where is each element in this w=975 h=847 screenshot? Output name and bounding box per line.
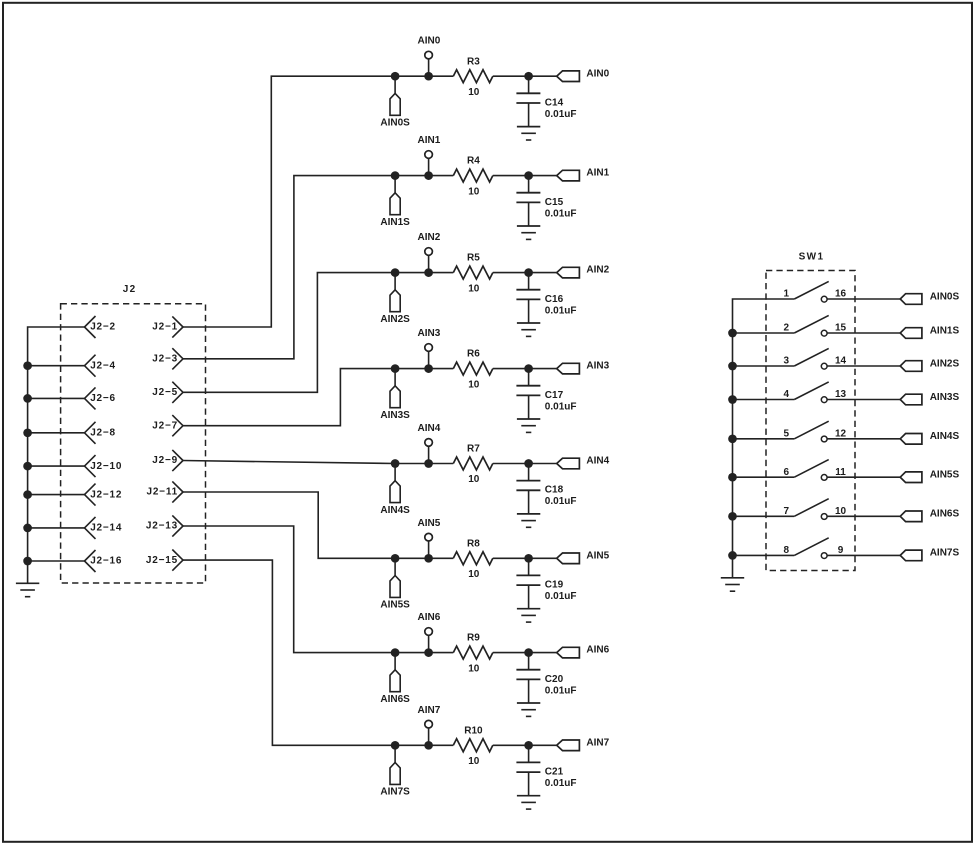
resistor R9 [453,646,493,659]
svg-text:AIN0: AIN0 [586,68,609,79]
svg-text:10: 10 [468,379,480,390]
switch SW1 element 2-15 contact [821,330,827,336]
svg-text:AIN1: AIN1 [418,135,441,146]
junction node AIN2S stub [391,268,400,277]
resistor R8 [453,552,493,565]
svg-text:J2−3: J2−3 [152,354,178,365]
svg-text:J2−4: J2−4 [90,360,116,371]
resistor R3 [453,70,493,83]
junction node AIN7S stub [391,741,400,750]
pin J2-15 chevron [172,550,183,571]
pin J2-2 chevron [85,316,96,338]
junction node AIN4S stub [391,459,400,468]
svg-text:R4: R4 [467,156,480,167]
junction node capacitor C19 [524,554,533,563]
jumper flag AIN7S [390,745,400,784]
svg-text:AIN7S: AIN7S [930,548,960,559]
svg-text:10: 10 [468,474,480,485]
switch SW1 element 6-11 contact [821,475,827,481]
switch SW1 element 5-12 blade [794,421,828,439]
svg-text:1: 1 [783,289,789,300]
wire SW1 ground bus [733,299,795,578]
junction node AIN3S stub [391,364,400,373]
wire bus to pin J2-4 [28,365,85,367]
wire switch 14 to AIN2S flag [827,365,900,367]
svg-text:AIN3: AIN3 [418,328,441,339]
junction node testpoint AIN7 [424,741,433,750]
svg-text:J2−15: J2−15 [146,555,178,566]
svg-text:J2−12: J2−12 [90,489,122,500]
pin J2-4 chevron [85,355,96,377]
switch SW1 element 2-15 blade [794,315,828,333]
svg-text:AIN3S: AIN3S [930,392,960,403]
wire switch 12 to AIN4S flag [827,438,900,440]
svg-text:5: 5 [783,429,789,440]
switch SW1 element 8-9 blade [794,538,828,556]
ground (C16) [517,322,540,324]
svg-text:J2−10: J2−10 [90,461,122,472]
connector J2 dashed outline [61,304,206,583]
junction node testpoint AIN1 [424,171,433,180]
wire J2-1 to AIN0 net [183,76,453,327]
wire J2-13 to AIN6 net [183,526,453,653]
capacitor C19 [516,558,540,608]
test point AIN7 (circle) [425,720,433,745]
switch SW1 element 7-10 blade [794,499,828,517]
svg-text:C19: C19 [545,580,564,591]
switch SW1 element 3-14 contact [821,363,827,369]
test point AIN6 (circle) [425,628,433,653]
junction node AIN1S stub [391,171,400,180]
switch SW1 element 7-10 contact [821,514,827,520]
svg-text:10: 10 [468,663,480,674]
wire switch 11 to AIN5S flag [827,476,900,478]
junction bus node sw4 [728,395,737,404]
resistor R7 [453,457,493,470]
svg-text:0.01uF: 0.01uF [545,778,577,789]
junction node testpoint AIN6 [424,648,433,657]
svg-text:AIN2S: AIN2S [380,314,410,325]
svg-text:10: 10 [468,186,480,197]
svg-text:10: 10 [468,756,480,767]
ground (C18) [517,513,540,515]
test point AIN0 (circle) [425,51,433,76]
svg-text:C15: C15 [545,197,564,208]
output flag AIN6 [557,647,580,658]
wire bus to pin J2-8 [28,432,85,434]
junction node AIN5S stub [391,554,400,563]
junction bus node J2-4 [23,361,32,370]
wire bus to switch pole 6 [733,476,795,478]
output flag AIN7 [557,740,580,751]
wire resistor R10 output to node [493,744,557,746]
capacitor C18 [516,464,540,514]
svg-text:AIN2: AIN2 [418,232,441,243]
wire switch 15 to AIN1S flag [827,332,900,334]
svg-text:AIN7: AIN7 [586,737,609,748]
svg-text:J2−9: J2−9 [152,455,178,466]
junction bus node sw8 [728,551,737,560]
output flag AIN2 [557,267,580,278]
junction node capacitor C16 [524,268,533,277]
resistor R5 [453,266,493,279]
svg-text:AIN3S: AIN3S [380,410,410,421]
svg-text:7: 7 [783,506,789,517]
svg-text:AIN4S: AIN4S [930,431,960,442]
svg-text:R8: R8 [467,538,480,549]
wire bus to pin J2-6 [28,397,85,399]
svg-text:9: 9 [838,545,844,556]
svg-text:AIN2S: AIN2S [930,358,960,369]
svg-text:10: 10 [468,283,480,294]
wire resistor R8 output to node [493,557,557,559]
svg-text:AIN2: AIN2 [586,265,609,276]
switch SW1 element 4-13 contact [821,397,827,403]
output flag AIN6S [900,511,922,522]
junction bus node sw7 [728,512,737,521]
svg-text:AIN5: AIN5 [418,518,441,529]
svg-text:SW1: SW1 [799,251,825,262]
pin J2-3 chevron [172,348,183,369]
switch SW1 element 4-13 blade [794,382,828,400]
wire bus to switch pole 8 [733,554,795,556]
wire bus to switch pole 7 [733,515,795,517]
pin J2-8 chevron [85,422,96,444]
junction node capacitor C14 [524,72,533,81]
wire resistor R4 output to node [493,175,557,177]
wire J2-7 to AIN3 net [183,369,453,426]
svg-text:AIN6: AIN6 [418,612,441,623]
junction bus node sw3 [728,362,737,371]
switch SW1 dashed outline [766,271,855,571]
junction node testpoint AIN0 [424,72,433,81]
svg-text:C21: C21 [545,767,564,778]
svg-text:AIN7: AIN7 [418,705,441,716]
pin J2-12 chevron [85,484,96,506]
ground (C14) [517,126,540,128]
resistor R10 [453,739,493,752]
jumper flag AIN1S [390,176,400,215]
resistor R6 [453,362,493,375]
svg-text:J2−5: J2−5 [152,387,178,398]
switch SW1 element 3-14 blade [794,348,828,366]
svg-text:AIN6S: AIN6S [380,694,410,705]
wire J2-9 to AIN4 net [183,461,453,464]
ground (C15) [517,225,540,227]
svg-text:J2−11: J2−11 [146,487,178,498]
svg-text:4: 4 [783,389,789,400]
svg-text:AIN5S: AIN5S [380,600,410,611]
output flag AIN5 [557,553,580,564]
junction bus node J2-6 [23,394,32,403]
junction node capacitor C21 [524,741,533,750]
svg-text:14: 14 [835,356,847,367]
svg-text:C18: C18 [545,485,564,496]
pin J2-16 chevron [85,550,96,572]
wire bus to pin J2-14 [28,527,85,529]
svg-text:16: 16 [835,289,847,300]
ground (C20) [517,702,540,704]
svg-text:C17: C17 [545,390,564,401]
switch SW1 element 8-9 contact [821,553,827,559]
ground (SW1 bus) [721,577,744,579]
output flag AIN4 [557,458,580,469]
capacitor C20 [516,653,540,703]
wire bus to pin J2-12 [28,494,85,496]
svg-text:AIN3: AIN3 [586,361,609,372]
svg-text:R3: R3 [467,56,480,67]
junction node capacitor C15 [524,171,533,180]
junction node testpoint AIN2 [424,268,433,277]
jumper flag AIN5S [390,558,400,597]
junction bus node J2-16 [23,557,32,566]
svg-text:R7: R7 [467,444,480,455]
svg-text:11: 11 [835,467,846,478]
svg-text:AIN5S: AIN5S [930,470,960,481]
test point AIN4 (circle) [425,439,433,464]
switch SW1 element 5-12 contact [821,436,827,442]
svg-text:J2−13: J2−13 [146,521,178,532]
capacitor C17 [516,369,540,419]
wire switch 10 to AIN6S flag [827,515,900,517]
svg-text:AIN1: AIN1 [586,168,609,179]
wire J2-11 to AIN5 net [183,492,453,558]
svg-text:J2−7: J2−7 [152,420,178,431]
wire resistor R6 output to node [493,368,557,370]
junction node testpoint AIN4 [424,459,433,468]
pin J2-9 chevron [172,450,183,471]
output flag AIN0 [557,71,580,82]
svg-text:R10: R10 [464,725,483,736]
svg-text:J2−8: J2−8 [90,428,116,439]
wire switch 9 to AIN7S flag [827,554,900,556]
test point AIN2 (circle) [425,248,433,273]
svg-text:C14: C14 [545,97,564,108]
wire switch 13 to AIN3S flag [827,399,900,401]
pin J2-1 chevron [172,316,183,337]
svg-text:AIN4: AIN4 [418,423,441,434]
wire bus to switch pole 2 [733,332,795,334]
pin J2-14 chevron [85,517,96,539]
switch SW1 element 1-16 contact [821,296,827,302]
svg-text:0.01uF: 0.01uF [545,109,577,120]
svg-text:AIN6S: AIN6S [930,509,960,520]
test point AIN3 (circle) [425,344,433,369]
output flag AIN3S [900,394,922,405]
wire J2-5 to AIN2 net [183,273,453,393]
junction bus node J2-8 [23,428,32,437]
pin J2-13 chevron [172,515,183,536]
junction bus node sw6 [728,473,737,482]
junction bus node J2-10 [23,462,32,471]
pin J2-5 chevron [172,382,183,403]
wire bus to switch pole 3 [733,365,795,367]
svg-text:AIN4: AIN4 [586,456,609,467]
ground (C19) [517,608,540,610]
junction bus node sw2 [728,329,737,338]
svg-text:3: 3 [783,356,789,367]
svg-text:J2−2: J2−2 [90,322,116,333]
svg-text:8: 8 [783,545,789,556]
svg-text:R9: R9 [467,633,480,644]
svg-text:0.01uF: 0.01uF [545,208,577,219]
ground (J2 bus) [16,582,39,584]
jumper flag AIN3S [390,369,400,408]
svg-text:C20: C20 [545,674,564,685]
svg-text:10: 10 [468,87,480,98]
junction bus node sw5 [728,434,737,443]
wire bus to pin J2-16 [28,560,85,562]
pin J2-11 chevron [172,481,183,502]
svg-text:AIN0S: AIN0S [380,118,410,129]
capacitor C21 [516,745,540,795]
jumper flag AIN4S [390,464,400,503]
junction node capacitor C20 [524,648,533,657]
wire J2-3 to AIN1 net [183,176,453,359]
svg-text:AIN6: AIN6 [586,645,609,656]
output flag AIN5S [900,472,922,483]
svg-text:10: 10 [835,506,847,517]
output flag AIN7S [900,550,922,561]
output flag AIN0S [900,294,922,305]
wire J2-15 to AIN7 net [183,560,453,745]
test point AIN1 (circle) [425,151,433,176]
output flag AIN2S [900,361,922,372]
svg-text:AIN4S: AIN4S [380,505,410,516]
junction node capacitor C17 [524,364,533,373]
pin J2-7 chevron [172,415,183,436]
wire bus to switch pole 4 [733,399,795,401]
capacitor C15 [516,176,540,226]
ground (C21) [517,795,540,797]
svg-text:J2: J2 [123,284,137,295]
junction bus node J2-12 [23,490,32,499]
junction node AIN0S stub [391,72,400,81]
output flag AIN1S [900,328,922,339]
svg-text:AIN0: AIN0 [418,36,441,47]
wire bus to pin J2-10 [28,465,85,467]
svg-text:10: 10 [468,569,480,580]
jumper flag AIN2S [390,273,400,312]
wire switch 16 to AIN0S flag [827,298,900,300]
svg-text:12: 12 [835,429,847,440]
jumper flag AIN6S [390,653,400,692]
pin J2-10 chevron [85,455,96,477]
svg-text:0.01uF: 0.01uF [545,305,577,316]
test point AIN5 (circle) [425,533,433,558]
svg-text:15: 15 [835,323,847,334]
svg-text:0.01uF: 0.01uF [545,401,577,412]
junction node testpoint AIN3 [424,364,433,373]
wire J2 ground bus [28,327,85,583]
svg-text:0.01uF: 0.01uF [545,685,577,696]
wire resistor R3 output to node [493,75,557,77]
svg-text:0.01uF: 0.01uF [545,496,577,507]
svg-text:13: 13 [835,389,847,400]
output flag AIN1 [557,170,580,181]
wire resistor R5 output to node [493,272,557,274]
svg-text:J2−1: J2−1 [152,322,178,333]
capacitor C16 [516,273,540,323]
output flag AIN4S [900,434,922,445]
junction node capacitor C18 [524,459,533,468]
wire resistor R9 output to node [493,652,557,654]
switch SW1 element 6-11 blade [794,460,828,478]
svg-text:AIN1S: AIN1S [380,217,410,228]
svg-text:6: 6 [783,467,789,478]
junction bus node J2-14 [23,524,32,533]
ground (C17) [517,418,540,420]
pin J2-6 chevron [85,387,96,409]
junction node testpoint AIN5 [424,554,433,563]
svg-text:AIN5: AIN5 [586,550,609,561]
svg-text:J2−16: J2−16 [90,556,122,567]
svg-text:C16: C16 [545,294,564,305]
svg-text:AIN0S: AIN0S [930,291,960,302]
svg-text:R5: R5 [467,253,480,264]
svg-text:2: 2 [783,323,789,334]
jumper flag AIN0S [390,76,400,115]
junction node AIN6S stub [391,648,400,657]
svg-text:AIN7S: AIN7S [380,787,410,798]
output flag AIN3 [557,363,580,374]
resistor R4 [453,169,493,182]
svg-text:0.01uF: 0.01uF [545,591,577,602]
switch SW1 element 1-16 blade [794,281,828,299]
svg-text:J2−6: J2−6 [90,393,116,404]
svg-text:J2−14: J2−14 [90,523,122,534]
svg-text:R6: R6 [467,349,480,360]
svg-text:AIN1S: AIN1S [930,325,960,336]
capacitor C14 [516,76,540,126]
wire bus to switch pole 5 [733,438,795,440]
wire resistor R7 output to node [493,463,557,465]
